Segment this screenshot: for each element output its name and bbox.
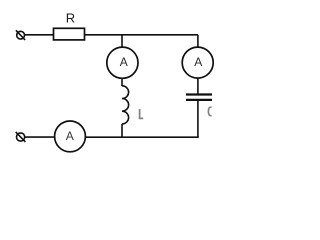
wire ammeter A1 to inductor (121, 78, 123, 86)
wire right branch down to ammeter A2 (197, 35, 199, 48)
resistor R (54, 28, 85, 40)
capacitor C plate bottom (186, 99, 212, 101)
wire capacitor to bottom corner (197, 101, 199, 138)
svg-text:A: A (120, 55, 128, 69)
svg-text:A: A (66, 129, 74, 143)
wire node to ammeter U1 (121, 35, 123, 48)
wire ammeter A2 to capacitor (197, 78, 199, 94)
ammeter A1 (107, 47, 138, 78)
label C (208, 107, 211, 115)
svg-text:A: A (194, 55, 202, 69)
wire inductor to bottom (121, 124, 123, 137)
wire terminal to ammeter A3 (25, 136, 55, 138)
svg-text:R: R (66, 10, 75, 25)
capacitor C plate top (186, 93, 212, 95)
wire resistor to right branch (85, 34, 198, 36)
inductor L (122, 86, 129, 124)
terminal bottom-left (16, 132, 26, 142)
wire terminal to resistor (25, 34, 54, 36)
ammeter A2 (182, 47, 213, 78)
ammeter A3 (55, 121, 86, 152)
terminal top-left (16, 30, 25, 40)
wire bottom (85, 136, 198, 138)
label L (140, 109, 144, 118)
